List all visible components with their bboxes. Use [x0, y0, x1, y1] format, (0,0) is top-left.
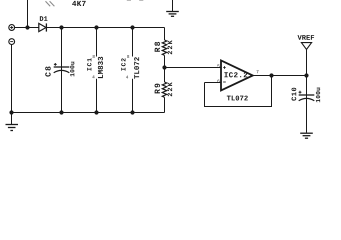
node IC1/rail bottom [94, 110, 98, 114]
wire feedback loop [205, 76, 272, 107]
label D1 [40, 16, 48, 21]
wire op-amp -in stub [205, 82, 222, 84]
label IC1 [87, 58, 91, 70]
wire left column [11, 45, 13, 113]
label R8 [155, 42, 160, 52]
node IC2/rail top [130, 25, 134, 29]
terminal + [9, 25, 15, 31]
pin 8 (IC2) [127, 55, 129, 58]
pin 8 (IC1) [93, 55, 95, 58]
value 4K7 [72, 1, 85, 6]
value 22K (R8) [168, 40, 173, 54]
ground (left) [6, 113, 19, 131]
label R9 [155, 84, 160, 94]
wire op-amp output [253, 75, 307, 77]
value TL072 (IC2 power) [134, 57, 139, 79]
ground (C10) [300, 133, 313, 138]
potentiometer arrow remnant (gray) [46, 1, 55, 6]
node pot/rail [25, 25, 29, 29]
op-amp - mark [223, 81, 226, 83]
label VREF [298, 35, 315, 40]
node VREF/output [304, 73, 308, 77]
junction nodes [9, 25, 308, 114]
wire top rail right [46, 27, 164, 29]
label IC2.2 [224, 72, 247, 77]
node C8/rail bottom [59, 110, 63, 114]
wire bottom rail [12, 112, 165, 114]
ground (top) [166, 0, 179, 16]
node gnd/rail bottom [9, 110, 13, 114]
node C8/rail top [59, 25, 63, 29]
value 22K (R9) [168, 82, 173, 96]
capacitor C8 [54, 28, 70, 113]
label C8 [45, 67, 50, 77]
pin 4 (IC1) [92, 75, 94, 78]
supply VREF stub [306, 49, 308, 75]
node IC1/rail top [94, 25, 98, 29]
pin 5 (op-amp) [217, 64, 219, 67]
capacitor C10 [299, 76, 315, 133]
wire potentiometer stub [27, 0, 29, 28]
node divider R8/R9 [162, 65, 166, 69]
op-amp + mark [223, 66, 226, 69]
pin 7 (op-amp) [257, 70, 259, 73]
pin 6 (op-amp) [217, 79, 219, 82]
cropped remnant marks (gray) [127, 0, 144, 1]
label C10 [292, 88, 297, 101]
diode D1 [39, 23, 47, 31]
value 100u (C8) [70, 62, 74, 77]
value 100u (C10) [316, 88, 320, 103]
value TL072 (op-amp) [227, 96, 248, 101]
supply VREF triangle [301, 43, 311, 50]
resistor R8 [162, 28, 166, 68]
IC2 power pin 4 [132, 79, 134, 113]
node IC2/rail bottom [130, 110, 134, 114]
wire top rail left [15, 27, 39, 29]
value LM833 [98, 57, 103, 78]
resistor R9 [162, 68, 166, 113]
label IC2 [121, 58, 125, 70]
op-amp IC2.2 [221, 60, 253, 90]
wire divider node to op-amp +in [165, 67, 222, 69]
pin 4 (IC2) [126, 76, 128, 79]
IC2 power pin 8 [132, 28, 134, 57]
IC1 power pin 4 [96, 79, 98, 113]
IC1 power pin 8 [96, 28, 98, 57]
terminal - [9, 39, 15, 45]
node feedback/output [269, 73, 273, 77]
